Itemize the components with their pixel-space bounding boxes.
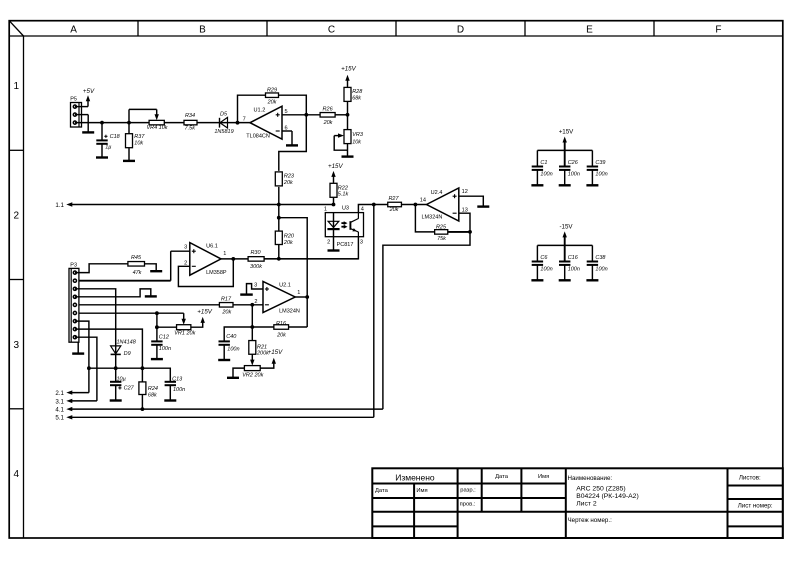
svg-text:Наименование:: Наименование: [568,475,613,482]
svg-text:пров.:: пров.: [460,502,476,508]
svg-text:R37: R37 [134,134,145,140]
svg-text:+15V: +15V [197,309,212,316]
svg-text:U3: U3 [342,206,349,212]
svg-text:R17: R17 [221,296,232,302]
svg-text:20k: 20k [276,332,286,338]
svg-text:C40: C40 [226,334,237,340]
svg-text:20k: 20k [323,120,333,126]
svg-text:2: 2 [14,211,20,222]
svg-text:1: 1 [324,206,327,212]
svg-text:LM358P: LM358P [206,270,227,276]
svg-text:B04224 (РК-149-А2): B04224 (РК-149-А2) [576,493,639,500]
svg-text:VR2 20k: VR2 20k [242,373,263,379]
svg-text:2.1: 2.1 [55,390,64,397]
svg-text:4: 4 [14,469,20,480]
svg-text:+15V: +15V [341,66,356,73]
svg-text:20k: 20k [389,207,399,213]
svg-text:R30: R30 [250,250,261,256]
svg-text:Лист номер:: Лист номер: [738,503,773,510]
svg-text:100n: 100n [159,346,171,352]
svg-text:D: D [457,24,464,35]
svg-text:U6.1: U6.1 [206,243,218,249]
svg-text:100n: 100n [540,266,552,272]
svg-text:20k: 20k [283,240,293,246]
svg-text:D5: D5 [220,112,228,118]
svg-text:1µ: 1µ [105,144,111,150]
svg-text:20k: 20k [267,100,277,106]
svg-text:3: 3 [360,240,363,246]
svg-text:+15V: +15V [328,163,343,170]
svg-text:300k: 300k [250,264,262,270]
svg-text:R16: R16 [276,321,287,327]
svg-text:C1: C1 [540,160,547,166]
svg-text:14: 14 [420,197,426,203]
svg-text:E: E [586,24,593,35]
svg-text:F: F [715,24,721,35]
svg-text:1: 1 [297,290,300,296]
svg-text:R23: R23 [284,173,295,179]
svg-text:C18: C18 [110,134,121,140]
svg-text:100n: 100n [540,171,552,177]
svg-text:C13: C13 [172,376,183,382]
svg-text:+5V: +5V [83,88,95,95]
svg-text:Имя: Имя [538,474,549,480]
svg-text:20k: 20k [221,310,231,316]
svg-text:C12: C12 [159,334,169,340]
svg-text:+15V: +15V [559,128,574,135]
svg-text:разр.:: разр.: [460,488,476,494]
svg-text:10k: 10k [352,139,361,145]
svg-text:5.1: 5.1 [55,415,64,422]
svg-text:C39: C39 [595,160,605,166]
svg-text:-15V: -15V [559,223,573,230]
svg-text:C26: C26 [568,160,579,166]
svg-text:5.1k: 5.1k [338,191,349,197]
svg-text:Чертеж номер.:: Чертеж номер.: [568,517,613,524]
svg-text:R25: R25 [436,224,447,230]
svg-text:1N5819: 1N5819 [214,129,233,135]
svg-text:68k: 68k [352,96,361,102]
svg-text:100n: 100n [227,347,239,353]
svg-text:P3: P3 [70,263,77,269]
svg-text:C38: C38 [595,255,606,261]
svg-text:3.1: 3.1 [55,398,64,405]
svg-text:10k: 10k [134,141,143,147]
svg-text:C16: C16 [568,255,579,261]
svg-text:C27: C27 [124,386,135,392]
svg-text:R26: R26 [323,106,334,112]
svg-text:C: C [328,24,335,35]
svg-text:4: 4 [361,206,364,212]
svg-text:R45: R45 [131,255,142,261]
svg-text:TL084CN: TL084CN [246,133,270,139]
svg-text:47k: 47k [133,270,142,276]
svg-text:2: 2 [327,240,330,246]
svg-text:7.5k: 7.5k [185,125,196,131]
svg-text:D9: D9 [124,351,131,357]
svg-text:R20: R20 [284,234,295,240]
svg-text:R21: R21 [257,344,267,350]
svg-text:4.1: 4.1 [55,407,64,414]
svg-text:PC817: PC817 [337,242,354,248]
svg-text:C6: C6 [540,255,548,261]
svg-text:1: 1 [223,251,226,257]
svg-text:R34: R34 [185,113,195,119]
svg-text:A: A [70,24,77,35]
svg-text:ARC 250 (Z285): ARC 250 (Z285) [576,485,626,492]
svg-text:75k: 75k [437,236,446,242]
svg-text:LM324N: LM324N [422,215,443,221]
svg-text:Имя: Имя [416,488,427,494]
svg-text:Изменено: Изменено [395,473,435,483]
svg-text:R27: R27 [388,196,399,202]
svg-text:68k: 68k [148,392,157,398]
svg-text:+15V: +15V [268,349,283,356]
svg-text:R29: R29 [267,88,277,94]
svg-text:100n: 100n [173,387,185,393]
svg-text:U2.4: U2.4 [431,190,443,196]
svg-text:1.1: 1.1 [55,202,64,209]
svg-text:3: 3 [14,340,20,351]
svg-text:LM324N: LM324N [279,309,300,315]
svg-text:3: 3 [254,282,257,288]
svg-text:1N4148: 1N4148 [117,339,137,345]
svg-text:5: 5 [285,109,288,115]
svg-text:3: 3 [184,245,187,251]
svg-text:Дата: Дата [495,474,509,480]
svg-text:10µ: 10µ [117,377,126,383]
svg-text:7: 7 [243,117,246,123]
svg-text:VR3: VR3 [352,132,364,138]
svg-text:2: 2 [184,260,187,266]
svg-text:R28: R28 [352,89,363,95]
svg-text:100n: 100n [568,266,580,272]
svg-text:U2.1: U2.1 [279,283,291,289]
svg-text:Дата: Дата [375,488,389,494]
svg-text:100n: 100n [595,266,607,272]
svg-text:VR4 10k: VR4 10k [146,125,167,131]
svg-text:Лист 2: Лист 2 [576,500,597,507]
svg-text:P5: P5 [70,96,77,102]
svg-text:B: B [199,24,206,35]
svg-text:1: 1 [14,81,20,92]
svg-text:20k: 20k [283,180,293,186]
svg-text:100n: 100n [595,171,607,177]
svg-text:U1.2: U1.2 [254,107,266,113]
svg-text:R24: R24 [148,386,158,392]
svg-text:100n: 100n [568,171,580,177]
svg-text:VR1 20k: VR1 20k [174,331,195,337]
svg-text:12: 12 [462,189,468,195]
svg-text:Листов:: Листов: [739,475,761,482]
